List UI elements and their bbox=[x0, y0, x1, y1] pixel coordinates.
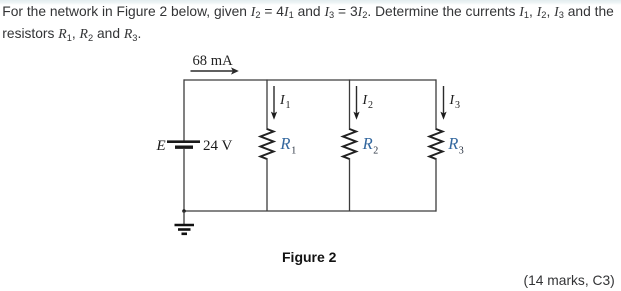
label R1 (blue) bbox=[279, 134, 296, 156]
battery value 24 V bbox=[203, 138, 232, 154]
label R2 (blue) bbox=[362, 134, 379, 156]
svg-text:3: 3 bbox=[455, 100, 460, 111]
ground symbol bbox=[175, 211, 195, 234]
resistor R3 zigzag bbox=[430, 129, 443, 159]
svg-text:24 V: 24 V bbox=[203, 138, 232, 154]
current arrow I2 bbox=[353, 86, 359, 120]
svg-text:E: E bbox=[156, 138, 166, 154]
svg-text:3: 3 bbox=[459, 145, 464, 156]
resistor R2 zigzag bbox=[343, 129, 356, 159]
svg-text:1: 1 bbox=[286, 100, 291, 111]
label I1 bbox=[279, 93, 291, 111]
wire: bottom rail bbox=[184, 210, 437, 212]
label 68 mA bbox=[193, 53, 234, 69]
svg-text:68 mA: 68 mA bbox=[193, 53, 234, 69]
wire: top rail bbox=[184, 79, 437, 81]
source current arrow 68 mA bbox=[191, 67, 239, 74]
current arrow I3 bbox=[440, 86, 446, 120]
svg-text:R: R bbox=[362, 134, 373, 153]
label I2 bbox=[362, 93, 374, 111]
wire: right edge upper (branch 3) bbox=[435, 79, 437, 130]
wire: branch 1 upper bbox=[266, 79, 268, 130]
wire: branch 2 lower bbox=[349, 158, 351, 211]
label R3 (blue) bbox=[447, 134, 464, 156]
wire: branch 1 lower bbox=[266, 158, 268, 211]
svg-text:2: 2 bbox=[368, 100, 373, 111]
wire: left edge lower (battery to bottom rail) bbox=[183, 149, 185, 211]
battery E: short plate bbox=[175, 145, 193, 148]
wire: branch 2 upper bbox=[349, 79, 351, 130]
battery E: long plate bbox=[167, 140, 200, 143]
svg-text:2: 2 bbox=[373, 145, 378, 156]
wire: left edge upper (to battery) bbox=[183, 79, 185, 141]
wire: right edge lower bbox=[435, 158, 437, 212]
svg-text:R: R bbox=[279, 134, 290, 153]
svg-text:1: 1 bbox=[291, 145, 296, 156]
battery label E bbox=[156, 138, 166, 154]
current arrow I1 bbox=[271, 86, 277, 120]
svg-text:R: R bbox=[447, 134, 458, 153]
node: junction dot at ground connection bbox=[182, 209, 186, 213]
resistor R1 zigzag bbox=[261, 129, 274, 159]
label I3 bbox=[449, 93, 461, 111]
